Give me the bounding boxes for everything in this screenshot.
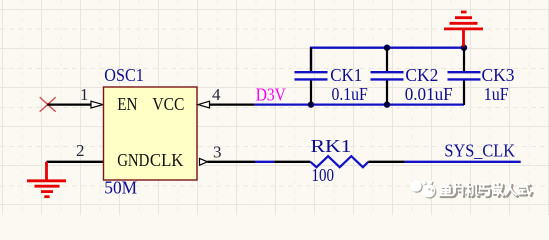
wire net SYS_CLK [405, 161, 521, 163]
designator OSC1 [104, 65, 144, 85]
resistor RK1 [274, 156, 404, 167]
svg-text:EN: EN [117, 94, 138, 114]
value 0.1uF [332, 84, 369, 104]
svg-text:0.01uF: 0.01uF [405, 84, 453, 104]
pin 4 input arrow [198, 101, 210, 108]
svg-text:50M: 50M [104, 178, 137, 198]
value 100 [312, 165, 335, 185]
pin 4 number [212, 85, 221, 104]
wire net D3V (bottom rail) [254, 103, 464, 105]
svg-text:OSC1: OSC1 [104, 65, 144, 85]
pin 1 input arrow [91, 101, 103, 108]
designator CK3 [482, 65, 515, 85]
svg-text:GND: GND [117, 150, 149, 170]
svg-text:0.1uF: 0.1uF [332, 84, 369, 104]
pin 1 number [80, 85, 89, 104]
pin name GND [117, 150, 149, 170]
junction node at top rail right end [461, 45, 467, 51]
wire top rail [311, 48, 464, 71]
watermark text 单片机与嵌入式 [439, 183, 532, 197]
capacitor CK3 [448, 48, 481, 105]
svg-text:100: 100 [312, 165, 335, 185]
pin 4 wire [210, 103, 255, 105]
value 1uF [484, 84, 509, 104]
svg-text:2: 2 [76, 141, 85, 160]
svg-text:CK3: CK3 [482, 65, 515, 85]
svg-text:1uF: 1uF [484, 84, 509, 104]
net label SYS_CLK [444, 141, 515, 161]
junction node at CK1 bottom [308, 101, 314, 107]
svg-text:CK1: CK1 [330, 65, 362, 85]
pin 3 output arrow [200, 158, 208, 165]
svg-text:CLK: CLK [150, 150, 184, 170]
pin name VCC [152, 94, 184, 114]
net label D3V [256, 84, 287, 104]
designator CK2 [405, 65, 438, 85]
watermark logo [410, 180, 436, 198]
no-ERC marker X [40, 97, 56, 112]
svg-text:RK1: RK1 [311, 136, 352, 156]
svg-text:1: 1 [80, 85, 89, 104]
pin 3 wire [208, 161, 256, 163]
svg-text:VCC: VCC [152, 94, 184, 114]
wire pin3 to resistor [255, 161, 274, 163]
svg-text:4: 4 [212, 85, 221, 104]
pin 2 number [76, 141, 85, 160]
designator RK1 [311, 136, 352, 156]
junction node at CK2 top [384, 45, 390, 51]
svg-text:SYS_CLK: SYS_CLK [444, 141, 515, 161]
oscillator OSC1 body [104, 87, 198, 180]
value 0.01uF [405, 84, 453, 104]
pin name CLK [150, 150, 184, 170]
pin 1 wire [47, 103, 91, 105]
svg-text:D3V: D3V [256, 84, 287, 104]
svg-text:3: 3 [213, 142, 222, 161]
pin 3 number [213, 142, 222, 161]
designator CK1 [330, 65, 362, 85]
power port (red, inverted ground) [444, 12, 483, 47]
capacitor CK2 [371, 48, 404, 105]
pin name EN [117, 94, 138, 114]
junction node at CK2 bottom [384, 101, 390, 107]
pin 2 wire [47, 161, 104, 163]
ground (power port GND, red) [27, 162, 66, 197]
capacitor CK1 [295, 48, 328, 105]
svg-text:CK2: CK2 [405, 65, 438, 85]
value 50M [104, 178, 137, 198]
